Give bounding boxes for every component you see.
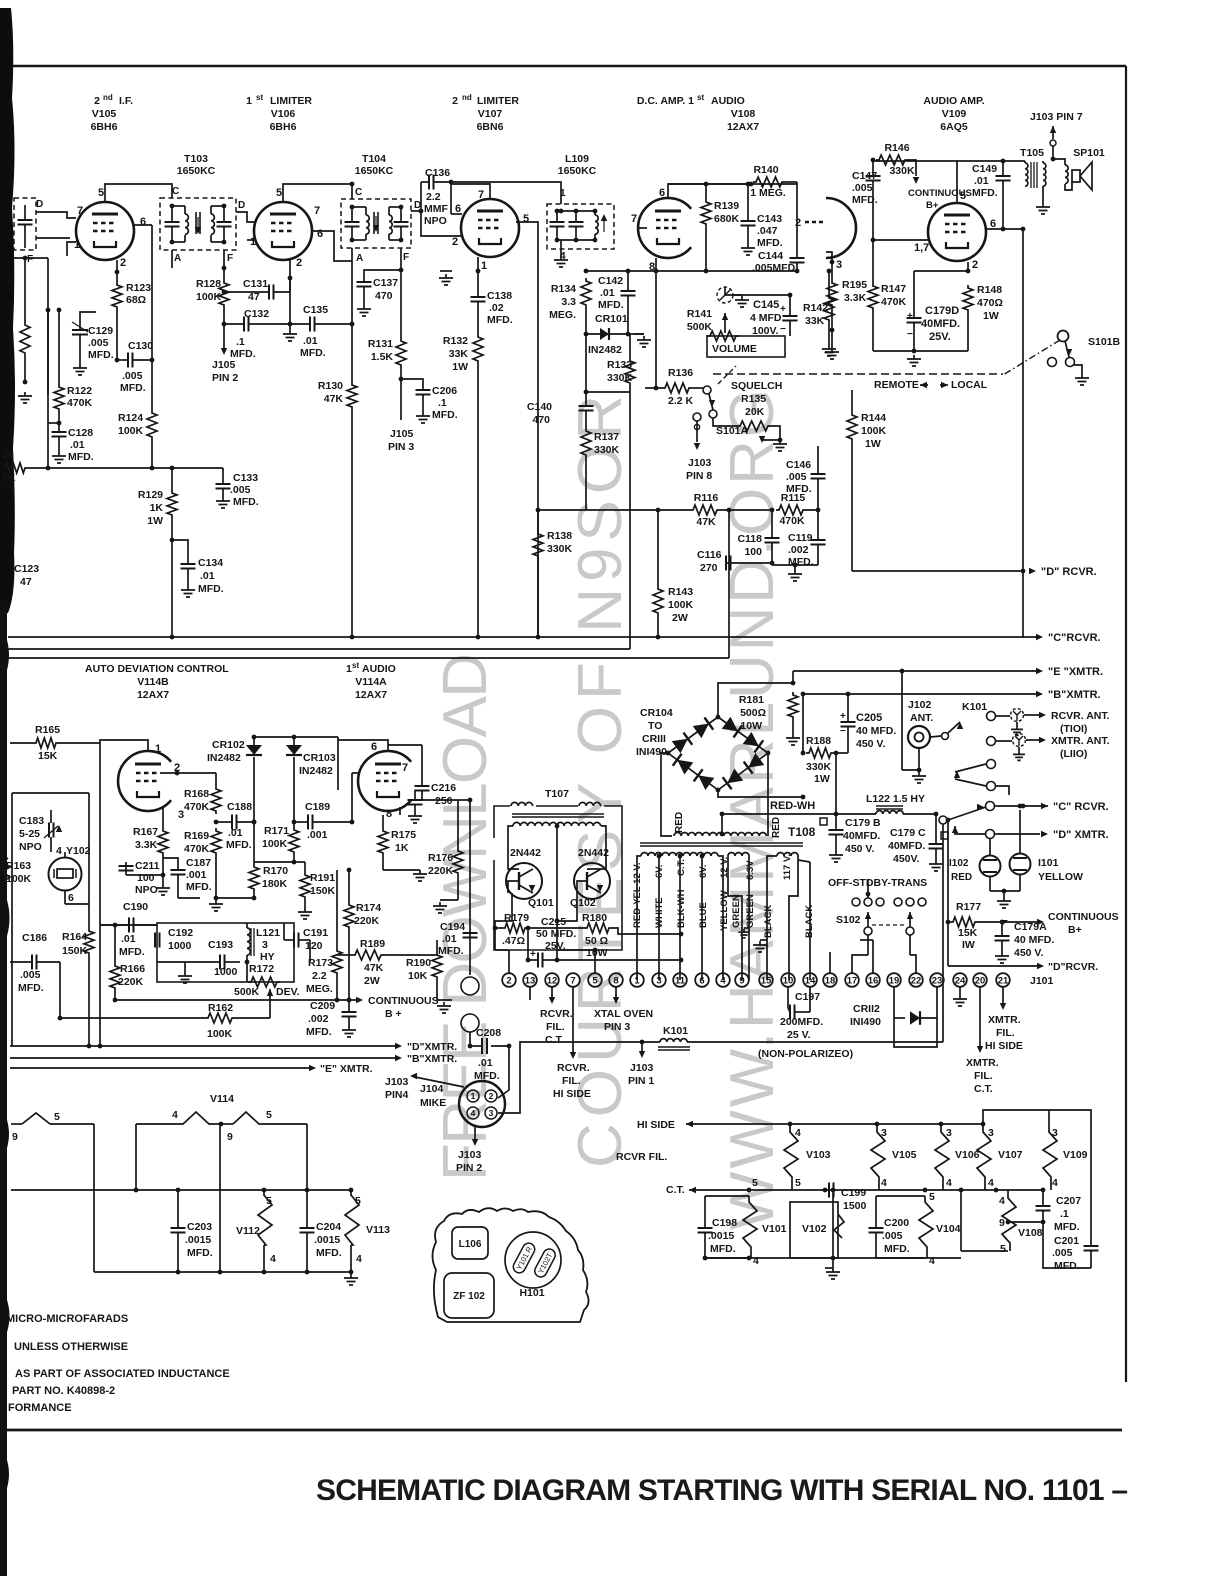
- svg-text:2.2: 2.2: [426, 191, 441, 203]
- svg-text:C.T.: C.T.: [545, 1034, 564, 1046]
- svg-text:1K: 1K: [150, 502, 164, 514]
- svg-text:7: 7: [402, 762, 408, 774]
- svg-text:4: 4: [56, 845, 62, 857]
- svg-text:6: 6: [68, 892, 74, 904]
- bus B XMTR y1057: [10, 1057, 398, 1059]
- svg-text:NPO: NPO: [19, 841, 42, 853]
- ground C179B: [829, 851, 843, 862]
- ground R135: [773, 440, 787, 451]
- wire J104 bottom J103 PIN 2: [474, 1127, 476, 1140]
- svg-text:1000: 1000: [214, 966, 238, 978]
- wire V114B pin3 cathode: [162, 807, 164, 815]
- switch S101A: [692, 387, 703, 389]
- wire V107 pin6: [450, 182, 452, 214]
- svg-text:.01: .01: [478, 1057, 493, 1069]
- svg-text:BLK-WH: BLK-WH: [676, 889, 687, 928]
- svg-text:RED-WH: RED-WH: [770, 800, 815, 812]
- svg-text:470K: 470K: [184, 843, 210, 855]
- svg-text:R141: R141: [687, 308, 712, 320]
- svg-text:C194: C194: [440, 921, 465, 933]
- svg-text:8: 8: [613, 975, 618, 986]
- svg-text:R132: R132: [443, 335, 468, 347]
- ground R181: [786, 734, 800, 745]
- svg-text:(LIIO): (LIIO): [1060, 748, 1087, 760]
- svg-text:REMOTE: REMOTE: [874, 379, 919, 391]
- svg-text:MFD.: MFD.: [1054, 1221, 1080, 1233]
- wire C129 top: [80, 312, 96, 318]
- svg-text:C187: C187: [186, 857, 211, 869]
- wire t5 column: [594, 950, 596, 973]
- box L121 network: [157, 923, 294, 982]
- svg-text:C131: C131: [243, 278, 268, 290]
- svg-text:+: +: [530, 949, 536, 960]
- svg-text:MFD.: MFD.: [187, 1247, 213, 1259]
- ground lower rail: [832, 1258, 834, 1268]
- svg-text:6: 6: [659, 187, 665, 199]
- svg-text:R147: R147: [881, 283, 906, 295]
- svg-text:MFD.: MFD.: [119, 946, 145, 958]
- border top: [13, 65, 1126, 68]
- svg-text:R140: R140: [753, 164, 778, 176]
- svg-text:500Ω: 500Ω: [740, 707, 766, 719]
- coil T104 secondary: [389, 215, 392, 234]
- wire t16 up: [872, 940, 874, 973]
- svg-text:F: F: [403, 252, 409, 263]
- svg-text:C130: C130: [128, 340, 153, 352]
- svg-text:6BN6: 6BN6: [477, 121, 504, 133]
- svg-text:250: 250: [435, 795, 453, 807]
- transformer T103 dashed box: [160, 198, 236, 250]
- svg-text:1: 1: [246, 95, 252, 107]
- terminal J101-17: [845, 973, 859, 987]
- ground R142: [822, 345, 836, 356]
- squelch dashed linkage: [718, 366, 736, 384]
- svg-text:OFF-STDBY-TRANS: OFF-STDBY-TRANS: [828, 877, 927, 889]
- capacitor C137 470: [364, 270, 401, 282]
- svg-text:2N442: 2N442: [578, 847, 609, 859]
- svg-text:ANT.: ANT.: [910, 712, 933, 724]
- svg-text:AS PART OF ASSOCIATED IND: AS PART OF ASSOCIATED INDUCTANCE: [15, 1368, 230, 1380]
- svg-text:Q102: Q102: [570, 897, 596, 909]
- wire t6 tap: [700, 854, 705, 859]
- wire T103 A down: [171, 250, 173, 268]
- svg-text:IN2482: IN2482: [588, 344, 622, 356]
- svg-text:4: 4: [1052, 1177, 1058, 1189]
- svg-text:C189: C189: [305, 801, 330, 813]
- svg-text:1500: 1500: [843, 1200, 867, 1212]
- svg-text:MFD.: MFD.: [233, 496, 259, 508]
- capacitor L109 tuning 1: [550, 222, 565, 227]
- svg-text:.01: .01: [70, 439, 85, 451]
- wire R131 column down: [400, 379, 402, 420]
- crystal holder circle: [505, 1232, 561, 1288]
- svg-text:220K: 220K: [428, 865, 454, 877]
- coil L109: [595, 215, 598, 234]
- svg-text:4: 4: [753, 1255, 759, 1267]
- capacitor C179D 40MFD 25V: [914, 270, 968, 272]
- svg-text:J101: J101: [1030, 975, 1054, 987]
- bus rcvr fil ct: [689, 1189, 1043, 1191]
- svg-text:J103: J103: [458, 1149, 482, 1161]
- svg-text:nd: nd: [462, 93, 472, 102]
- svg-text:17: 17: [847, 975, 858, 986]
- svg-text:C.T.: C.T.: [676, 859, 687, 876]
- wire K101 line: [640, 1040, 645, 1045]
- svg-text:.005: .005: [786, 471, 807, 483]
- T108 secondary C terminals: [767, 856, 777, 980]
- svg-text:.1: .1: [1060, 1208, 1069, 1220]
- svg-text:4: 4: [881, 1177, 887, 1189]
- ground C134: [181, 586, 195, 597]
- svg-text:V106: V106: [955, 1149, 980, 1161]
- svg-text:C211: C211: [135, 860, 160, 872]
- svg-text:7: 7: [570, 975, 575, 986]
- wire R171 R170 join: [254, 861, 294, 863]
- wire bridge - to R188 left: [718, 790, 803, 797]
- wire Q101 emitter: [495, 893, 512, 928]
- svg-text:330K: 330K: [889, 165, 915, 177]
- filter ZF102 module: [444, 1273, 494, 1318]
- svg-text:HY: HY: [260, 951, 275, 963]
- capacitor C134 .01 MFD: [172, 540, 188, 564]
- svg-text:450V.: 450V.: [893, 853, 920, 865]
- svg-text:R130: R130: [318, 380, 343, 392]
- svg-text:1 MEG.: 1 MEG.: [750, 187, 786, 199]
- svg-text:MFD.: MFD.: [120, 382, 146, 394]
- resistor R148 470ohm 1W: [963, 285, 973, 313]
- terminal 14 wire: [809, 862, 811, 980]
- wire R116 line y510: [538, 509, 690, 511]
- svg-text:R148: R148: [977, 284, 1002, 296]
- svg-text:120: 120: [305, 940, 323, 952]
- svg-text:HI SIDE: HI SIDE: [553, 1088, 591, 1100]
- wire C187 top: [163, 858, 178, 864]
- svg-text:C209: C209: [310, 1000, 335, 1012]
- svg-text:MFD.: MFD.: [438, 945, 464, 957]
- svg-text:.005MFD.: .005MFD.: [752, 262, 798, 274]
- wire V106 pin2 down: [289, 260, 291, 278]
- resistor R124 100K: [151, 360, 153, 410]
- svg-text:J103: J103: [688, 457, 712, 469]
- wire C205/R188 down to RED-WH: [835, 753, 837, 814]
- svg-text:117 V.: 117 V.: [782, 854, 793, 880]
- terminal J101-20: [973, 973, 987, 987]
- svg-text:CONTINUOUS: CONTINUOUS: [1048, 911, 1119, 923]
- svg-text:.047: .047: [757, 225, 778, 237]
- svg-text:C203: C203: [187, 1221, 212, 1233]
- svg-text:C179D: C179D: [925, 305, 959, 317]
- svg-text:C197: C197: [795, 991, 820, 1003]
- svg-text:3: 3: [489, 1108, 494, 1118]
- svg-text:470Ω: 470Ω: [977, 297, 1003, 309]
- ground C143: [741, 244, 755, 255]
- wire R135 left to S101A: [713, 418, 737, 426]
- svg-text:SP101: SP101: [1073, 147, 1105, 159]
- svg-text:C207: C207: [1056, 1195, 1081, 1207]
- svg-text:CR103: CR103: [303, 752, 336, 764]
- svg-text:C186: C186: [22, 932, 47, 944]
- T108 secondary A terminals: [637, 856, 641, 980]
- svg-text:4: 4: [356, 1253, 362, 1265]
- svg-text:C183: C183: [19, 815, 44, 827]
- svg-text:CRIII: CRIII: [642, 733, 666, 745]
- svg-text:12 V.: 12 V.: [719, 857, 730, 878]
- svg-text:2W: 2W: [672, 612, 688, 624]
- svg-text:100K: 100K: [118, 425, 144, 437]
- cable rings J104 feed: [461, 977, 479, 995]
- svg-text:100: 100: [137, 872, 155, 884]
- svg-text:RED: RED: [674, 812, 685, 833]
- svg-text:450 V.: 450 V.: [856, 738, 885, 750]
- svg-text:.1: .1: [236, 336, 245, 348]
- svg-text:.01: .01: [228, 827, 243, 839]
- svg-text:PIN 1: PIN 1: [628, 1075, 654, 1087]
- ground antenna 1: [1016, 722, 1018, 726]
- wire C186 node: [59, 962, 61, 1018]
- svg-text:R122: R122: [67, 385, 92, 397]
- svg-text:R134: R134: [551, 283, 576, 295]
- svg-text:R173: R173: [308, 957, 333, 969]
- wire pin5 column down to bus: [537, 232, 539, 637]
- svg-text:13: 13: [525, 975, 536, 986]
- svg-text:HI SIDE: HI SIDE: [637, 1119, 675, 1131]
- svg-text:1: 1: [250, 236, 256, 248]
- svg-text:.002: .002: [308, 1013, 329, 1025]
- resistor R140 1 MEG: [753, 177, 785, 187]
- svg-text:MFD.: MFD.: [786, 483, 812, 495]
- svg-text:.005: .005: [852, 182, 873, 194]
- svg-text:.002: .002: [788, 544, 809, 556]
- svg-text:MFD.: MFD.: [306, 1026, 332, 1038]
- terminal J101-2: [502, 973, 516, 987]
- resistor R168 470K: [215, 773, 217, 786]
- switch arm: [948, 807, 986, 820]
- capacitor C138 .02 MFD: [477, 271, 479, 297]
- tube V114B (half envelope): [118, 751, 171, 811]
- ground C135: [289, 324, 291, 330]
- wire D RCVR lower: [947, 922, 949, 966]
- svg-text:R170: R170: [263, 865, 288, 877]
- inductor L106 module: [452, 1227, 488, 1259]
- capacitor T104 secondary: [394, 222, 409, 227]
- wire R132 down to bus: [477, 364, 479, 637]
- bus heater bottom right: [705, 1257, 925, 1259]
- svg-text:26: 26: [2, 449, 14, 461]
- svg-text:V114A: V114A: [355, 676, 387, 688]
- svg-text:R189: R189: [360, 938, 385, 950]
- svg-text:MFD.: MFD.: [316, 1247, 342, 1259]
- arrow t8 XTAL OVEN PIN 3: [615, 987, 617, 997]
- ground C128: [52, 452, 66, 463]
- wires T103 internal top/bottom: [172, 205, 185, 207]
- svg-text:3.3K: 3.3K: [135, 839, 158, 851]
- wire C208 right column to J104 pin2: [498, 1046, 509, 1098]
- capacitor C142 .01 MFD: [627, 271, 629, 291]
- capacitor T104 primary: [345, 222, 360, 227]
- wire 9 tap to C207: [1008, 1221, 1043, 1223]
- svg-text:T104: T104: [362, 153, 386, 165]
- wire V108 pin8 column to R136: [655, 271, 657, 388]
- tube V106: [254, 202, 312, 260]
- svg-text:6.3V: 6.3V: [745, 860, 756, 880]
- wire T103 D to V106 pin: [236, 212, 256, 222]
- svg-text:C201: C201: [1054, 1235, 1079, 1247]
- inductor L109 dashed box: [547, 204, 614, 249]
- svg-text:47K: 47K: [324, 393, 344, 405]
- svg-text:330K: 330K: [607, 372, 633, 384]
- wire E XMTR to J102: [901, 671, 903, 770]
- wire left edge vertical: [47, 258, 49, 395]
- wire 48 column to bus: [47, 310, 49, 468]
- wire t18 stub: [829, 952, 831, 973]
- svg-text:J104: J104: [420, 1083, 444, 1095]
- svg-text:.01: .01: [121, 933, 136, 945]
- svg-text:C133: C133: [233, 472, 258, 484]
- svg-text:25 V.: 25 V.: [787, 1029, 811, 1041]
- wire continuous B+ rail y1000: [115, 999, 360, 1001]
- svg-text:2: 2: [972, 259, 978, 271]
- T108 secondary winding A: [641, 853, 718, 856]
- svg-text:+: +: [840, 711, 846, 722]
- ground R195: [831, 330, 833, 348]
- svg-text:RCVR FIL.: RCVR FIL.: [616, 1151, 667, 1163]
- svg-text:V107: V107: [998, 1149, 1023, 1161]
- svg-text:+: +: [780, 304, 786, 315]
- wire C215 nodes: [527, 928, 529, 960]
- svg-text:C.T.: C.T.: [974, 1083, 993, 1095]
- svg-text:CR102: CR102: [212, 739, 245, 751]
- crystal Y101R capsule: [511, 1241, 537, 1275]
- svg-text:.005: .005: [88, 337, 109, 349]
- border right: [1125, 66, 1127, 1382]
- svg-text:R176: R176: [428, 852, 453, 864]
- wire C190-R166 node: [100, 924, 157, 926]
- svg-text:D: D: [238, 200, 245, 211]
- svg-text:R190: R190: [406, 957, 431, 969]
- resistor R143 100K 2W: [657, 510, 659, 586]
- svg-text:MFD.: MFD.: [598, 299, 624, 311]
- svg-text:BLACK: BLACK: [763, 905, 774, 938]
- svg-text:MMF: MMF: [424, 203, 448, 215]
- svg-text:MFD.: MFD.: [1054, 1260, 1080, 1272]
- svg-text:220K: 220K: [118, 976, 144, 988]
- svg-text:40MFD.: 40MFD.: [888, 840, 925, 852]
- svg-text:INI490: INI490: [850, 1016, 881, 1028]
- svg-text:R171: R171: [264, 825, 289, 837]
- svg-text:ZF 102: ZF 102: [453, 1291, 485, 1302]
- svg-text:J105: J105: [212, 359, 236, 371]
- svg-text:680K: 680K: [714, 213, 740, 225]
- wire bridge AC right to T108 primary: [767, 753, 769, 836]
- svg-text:H101: H101: [519, 1287, 544, 1299]
- svg-text:R133: R133: [607, 359, 632, 371]
- svg-text:5: 5: [960, 190, 966, 202]
- svg-text:MFD.: MFD.: [300, 347, 326, 359]
- svg-text:L122 1.5 HY: L122 1.5 HY: [866, 793, 925, 805]
- arrow C RCVR: [1036, 634, 1043, 640]
- svg-text:IW: IW: [962, 939, 975, 951]
- svg-text:PIN 2: PIN 2: [456, 1162, 482, 1174]
- svg-text:C179 B: C179 B: [845, 817, 881, 829]
- svg-text:V114B: V114B: [137, 676, 169, 688]
- terminal J101-11: [673, 973, 687, 987]
- svg-text:18: 18: [825, 975, 836, 986]
- svg-text:6BH6: 6BH6: [270, 121, 297, 133]
- ground C133: [216, 497, 230, 508]
- svg-text:C200: C200: [884, 1217, 909, 1229]
- wire D RCVR: [852, 570, 1023, 572]
- svg-text:C128: C128: [68, 427, 93, 439]
- svg-text:7: 7: [314, 205, 320, 217]
- svg-text:V101: V101: [762, 1223, 787, 1235]
- svg-text:R195: R195: [842, 279, 867, 291]
- ground antenna 2: [1018, 747, 1020, 751]
- arrow CONTINUOUS B+ (R146): [908, 160, 916, 176]
- svg-text:C198: C198: [712, 1217, 737, 1229]
- svg-text:47K: 47K: [696, 516, 716, 528]
- wire S102 to terminals: [867, 935, 869, 955]
- svg-text:st: st: [256, 93, 263, 102]
- svg-text:270: 270: [700, 562, 718, 574]
- svg-text:6BH6: 6BH6: [91, 121, 118, 133]
- capacitor V114A cathode bypass: [408, 800, 423, 805]
- svg-text:NPO: NPO: [135, 884, 158, 896]
- resistor R132 33K 1W: [473, 334, 483, 364]
- svg-text:100: 100: [744, 546, 762, 558]
- svg-text:B +: B +: [385, 1008, 402, 1020]
- bus D XMTR y1046: [10, 1045, 398, 1047]
- wire bridge AC left to T108 primary: [661, 753, 672, 836]
- svg-text:3.3: 3.3: [561, 296, 576, 308]
- svg-text:(TIOI): (TIOI): [1060, 723, 1087, 735]
- resistor R133 330K: [629, 334, 631, 358]
- ground R176: [440, 899, 458, 901]
- wire t7 RCVR FIL HI SIDE: [572, 987, 574, 1052]
- svg-text:20K: 20K: [745, 406, 765, 418]
- svg-text:12AX7: 12AX7: [355, 689, 387, 701]
- T107 top coil 1: [511, 802, 533, 806]
- svg-text:C145: C145: [753, 299, 779, 311]
- wire volume node: [725, 294, 790, 296]
- svg-text:.01: .01: [974, 175, 989, 187]
- svg-text:4: 4: [999, 1195, 1005, 1207]
- svg-text:R181: R181: [739, 694, 764, 706]
- wire pin2 column: [116, 310, 118, 360]
- svg-text:R137: R137: [594, 431, 619, 443]
- svg-text:100K: 100K: [196, 291, 222, 303]
- wire C215 to t11: [557, 959, 681, 961]
- svg-text:FIL.: FIL.: [974, 1070, 993, 1082]
- svg-text:J103: J103: [630, 1062, 654, 1074]
- svg-text:.01: .01: [600, 287, 615, 299]
- svg-text:PIN 3: PIN 3: [388, 441, 414, 453]
- terminal J101-21: [996, 973, 1010, 987]
- wire S102 feed: [866, 892, 871, 897]
- wire V105 pin6: [134, 224, 152, 226]
- svg-text:R172: R172: [249, 963, 274, 975]
- wire t2 column: [494, 928, 496, 950]
- arrow t21 XMTR FIL HI SIDE: [1002, 987, 1004, 1003]
- svg-text:5-25: 5-25: [19, 828, 40, 840]
- capacitor C140 470: [585, 392, 587, 406]
- svg-text:6: 6: [371, 741, 377, 753]
- svg-text:1650KC: 1650KC: [177, 165, 216, 177]
- svg-text:330K: 330K: [547, 543, 573, 555]
- svg-text:4: 4: [270, 1253, 276, 1265]
- wire CR102 CR103 top rail: [254, 736, 338, 738]
- ground near rings: [437, 999, 452, 1001]
- svg-text:"D" XMTR.: "D" XMTR.: [1053, 829, 1109, 841]
